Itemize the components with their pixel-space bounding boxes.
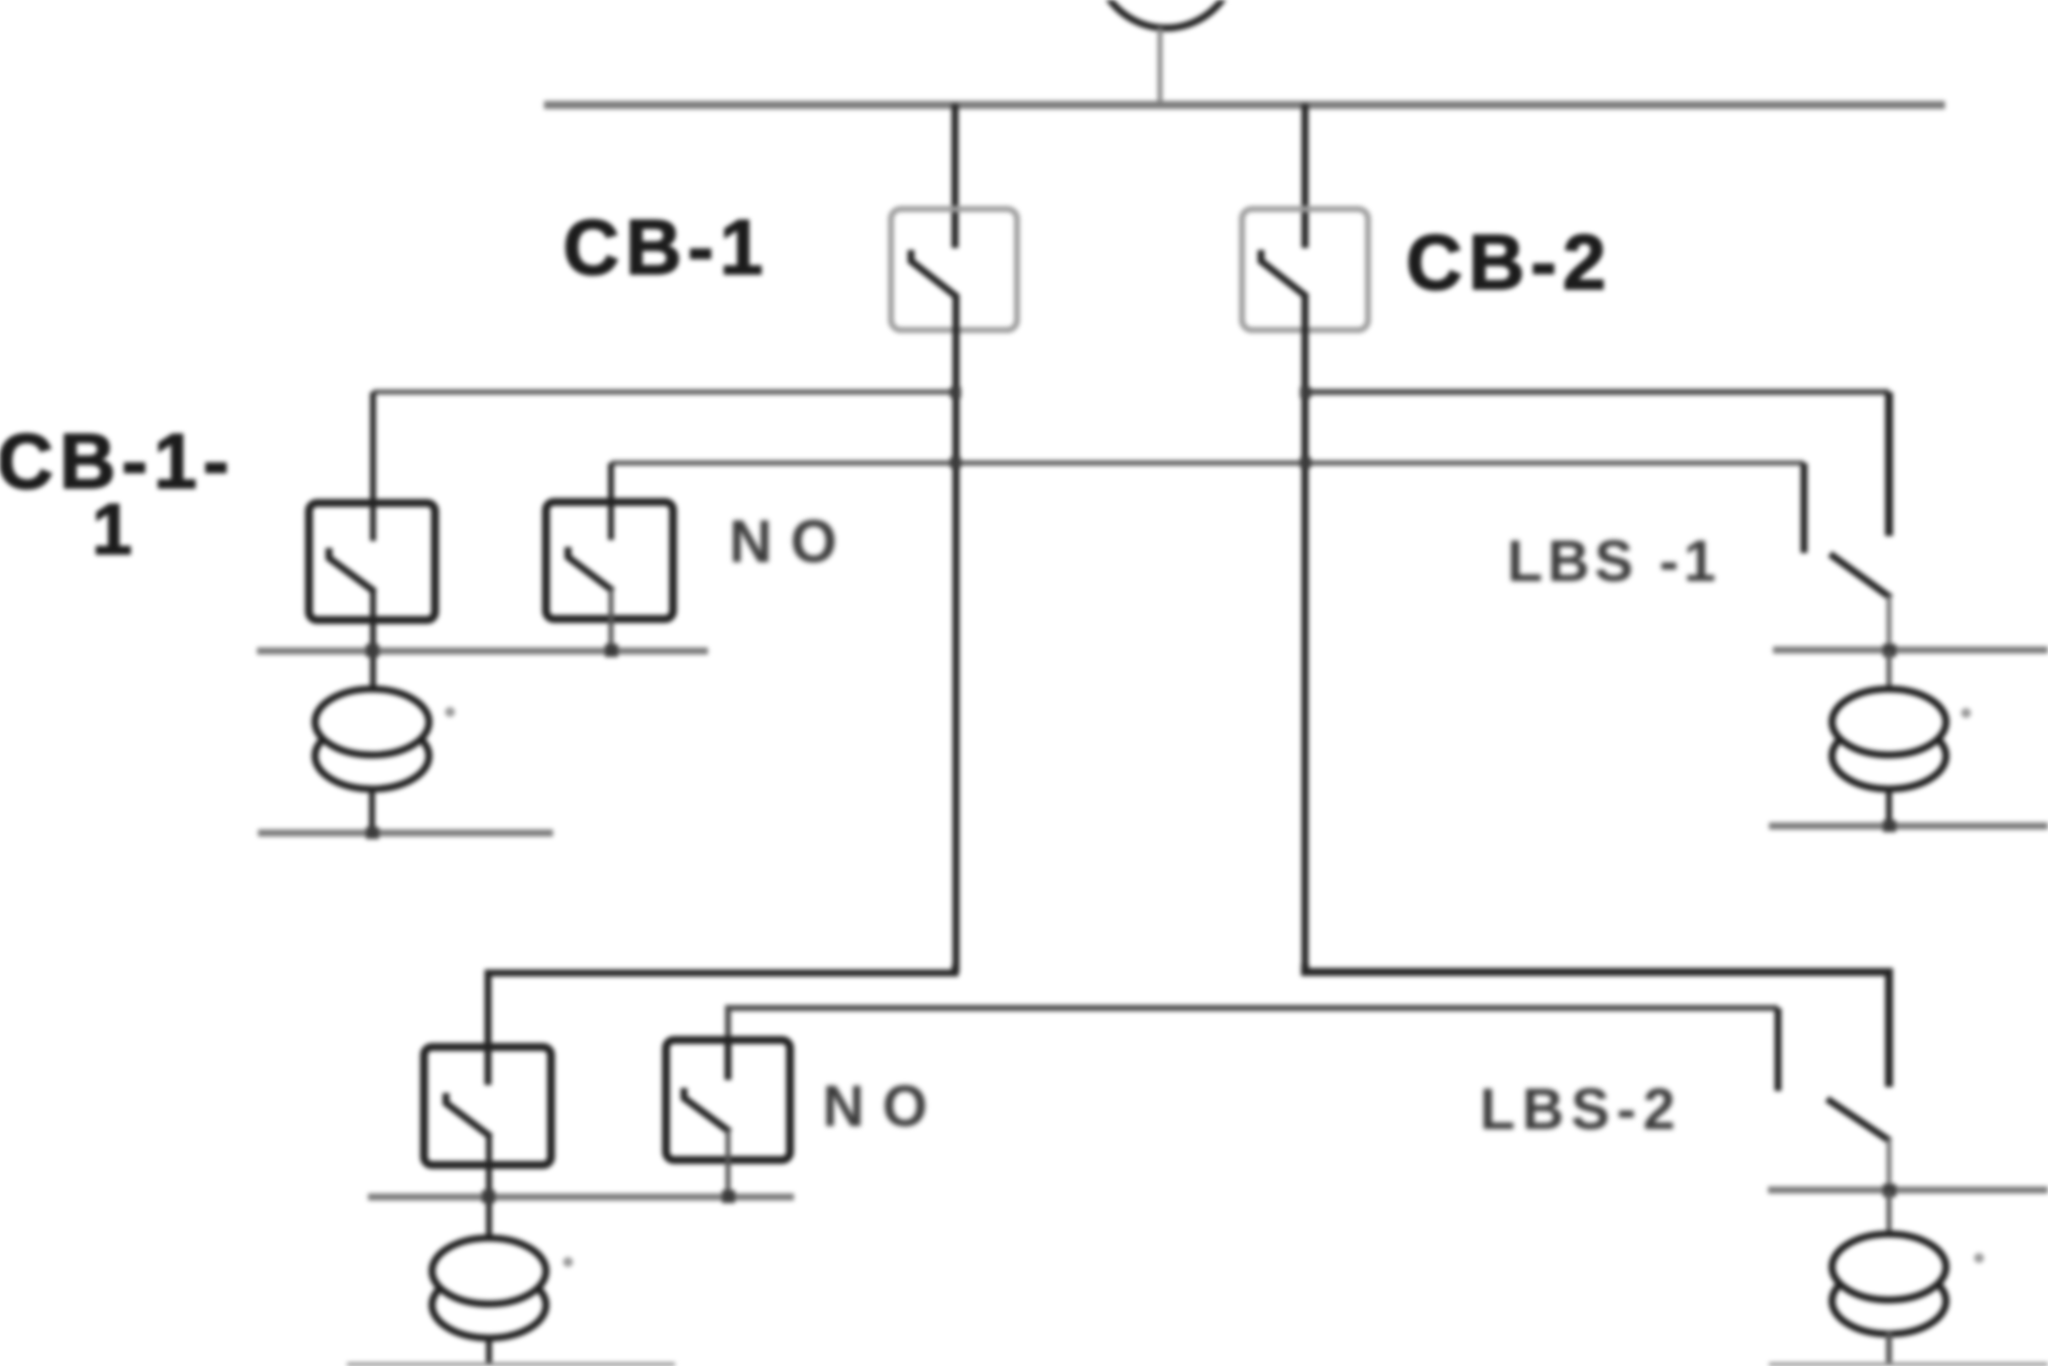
breaker CB-2-1 blade: [446, 1093, 491, 1137]
breaker CB-2 blade: [1261, 250, 1307, 297]
svg-text:CB-1: CB-1: [563, 203, 769, 291]
upper-right secondary bus: [1769, 823, 2048, 830]
node: NO-1 drop on upper-left bus: [605, 644, 618, 657]
upper-right bus: [1773, 647, 2048, 654]
wire: T3 secondary to bottom bus: [486, 1336, 492, 1364]
transformer T2 lower coil: [1832, 723, 1946, 789]
wire: NO-2 output to lower-left bus: [726, 1130, 731, 1196]
main bus: [544, 101, 1945, 109]
breaker CB-1 (square symbol): [891, 209, 1017, 330]
switch LBS-1 left stub: [1801, 463, 1808, 553]
wire: CB-1-1 output to upper-left bus: [370, 590, 376, 692]
breaker CB-2 (square symbol): [1242, 209, 1368, 330]
svg-text:1: 1: [92, 490, 132, 570]
node: LBS-2 on lower-right bus: [1883, 1184, 1896, 1197]
switch NO-1 blade: [568, 547, 613, 591]
wire: upper-right bus to T2: [1887, 651, 1892, 692]
svg-text:LBS-2: LBS-2: [1480, 1077, 1683, 1142]
upper-left bus: [257, 648, 708, 655]
svg-text:CB-2: CB-2: [1406, 218, 1612, 306]
breaker CB-1-1 (square symbol): [309, 503, 435, 620]
lower-right bus: [1768, 1187, 2048, 1194]
transformer T4 lower coil: [1832, 1268, 1946, 1334]
mark: polarity dot T3: [563, 1257, 573, 1267]
switch LBS-1 fixed contact drop: [1885, 392, 1893, 536]
node: branch junction on CB-1 feeder: [950, 387, 961, 398]
wire: T1 secondary to lower bus: [369, 787, 375, 833]
switch NO-2 blade: [684, 1088, 730, 1132]
wire: NO-1 output to upper-left bus: [609, 589, 614, 650]
transformer T1 upper coil: [315, 689, 429, 755]
switch NO-2 (normally-open square symbol): [666, 1040, 790, 1160]
wire: drop to CB-1-1 square: [370, 392, 376, 541]
wire: LBS-2 to lower-right bus: [1887, 1139, 1892, 1192]
wire: source drop to main bus: [1158, 28, 1163, 103]
breaker CB-1-1 blade: [329, 548, 375, 592]
wire: CB-2-1 output to lower-left bus: [486, 1135, 492, 1242]
switch NO-1 (normally-open square symbol): [546, 502, 673, 619]
wire: branch from CB-1 to feeder CB-1-1 (horizontal y=392): [373, 390, 955, 395]
mark: polarity dot T1: [445, 707, 455, 717]
lower-left bottom bus (clipped at page edge): [347, 1363, 675, 1366]
mark: polarity dot T2: [1961, 708, 1971, 718]
node: T1 on secondary bus: [366, 827, 379, 839]
wire: LBS-1 to upper-right bus: [1887, 596, 1892, 651]
lower-right bottom bus (clipped at page edge): [1769, 1363, 2048, 1366]
node: CB-2-1 on lower-left bus: [482, 1190, 495, 1203]
wire: node B corner to LBS-2 (horizontal y=972): [1305, 964, 1889, 1087]
breaker CB-2-1 (lower-left square symbol): [424, 1047, 551, 1165]
transformer T2 upper coil: [1832, 689, 1946, 755]
source G1 (utility source circle, top): [1096, 0, 1236, 28]
wire: tie line y=1008 from NO-2 to LBS-2: [728, 1008, 1778, 1040]
breaker CB-1 blade: [911, 250, 957, 297]
wire: T2 secondary to bus: [1886, 787, 1892, 826]
transformer T3 lower coil: [432, 1272, 546, 1338]
svg-text:LBS -1: LBS -1: [1507, 529, 1721, 594]
node: NO-2 on lower-left bus: [722, 1190, 735, 1203]
switch LBS-1 blade: [1830, 554, 1891, 598]
wire: tie line y=463 from NO-1 switch to LBS-1: [611, 461, 1804, 466]
node: tie line crossing CB-1 feeder: [950, 457, 961, 468]
switch LBS-2 left stub: [1775, 1008, 1782, 1091]
wire: drop into NO-1 square: [608, 463, 614, 540]
node: tie line crossing CB-2 feeder: [1300, 457, 1311, 468]
node: branch junction on CB-2 feeder: [1300, 387, 1311, 398]
wire: main bus to CB-2: [1302, 104, 1309, 248]
node: T2 on secondary bus: [1883, 820, 1896, 832]
lower-left bus: [368, 1194, 794, 1201]
mark: polarity dot T4: [1974, 1253, 1984, 1263]
wire: node A corner to lower feeder (horizontal y=973): [488, 965, 955, 1047]
wire: CB-2 output down to node B: [1302, 294, 1309, 972]
upper-left secondary bus: [258, 830, 553, 837]
transformer T3 upper coil: [432, 1238, 546, 1304]
wire: main bus to CB-1: [952, 104, 959, 248]
svg-text:NO: NO: [823, 1074, 946, 1139]
svg-text:NO: NO: [729, 508, 855, 575]
node: LBS-1 on upper-right bus: [1883, 644, 1896, 657]
switch LBS-2 blade: [1827, 1099, 1890, 1141]
wire: branch from CB-2 to LBS-1 (horizontal y=392): [1305, 389, 1889, 395]
switch NO-2 incoming stub: [725, 1040, 732, 1080]
wire: lower-right bus to T4: [1887, 1191, 1892, 1238]
transformer T4 upper coil: [1832, 1234, 1946, 1300]
wire: T4 secondary to bottom bus: [1886, 1332, 1892, 1364]
node: CB-1-1 drop on upper-left bus: [366, 644, 379, 657]
transformer T1 lower coil: [315, 723, 429, 789]
wire: CB-1 output down to node A: [953, 294, 960, 973]
breaker CB-2-1 incoming stub: [485, 1047, 492, 1085]
